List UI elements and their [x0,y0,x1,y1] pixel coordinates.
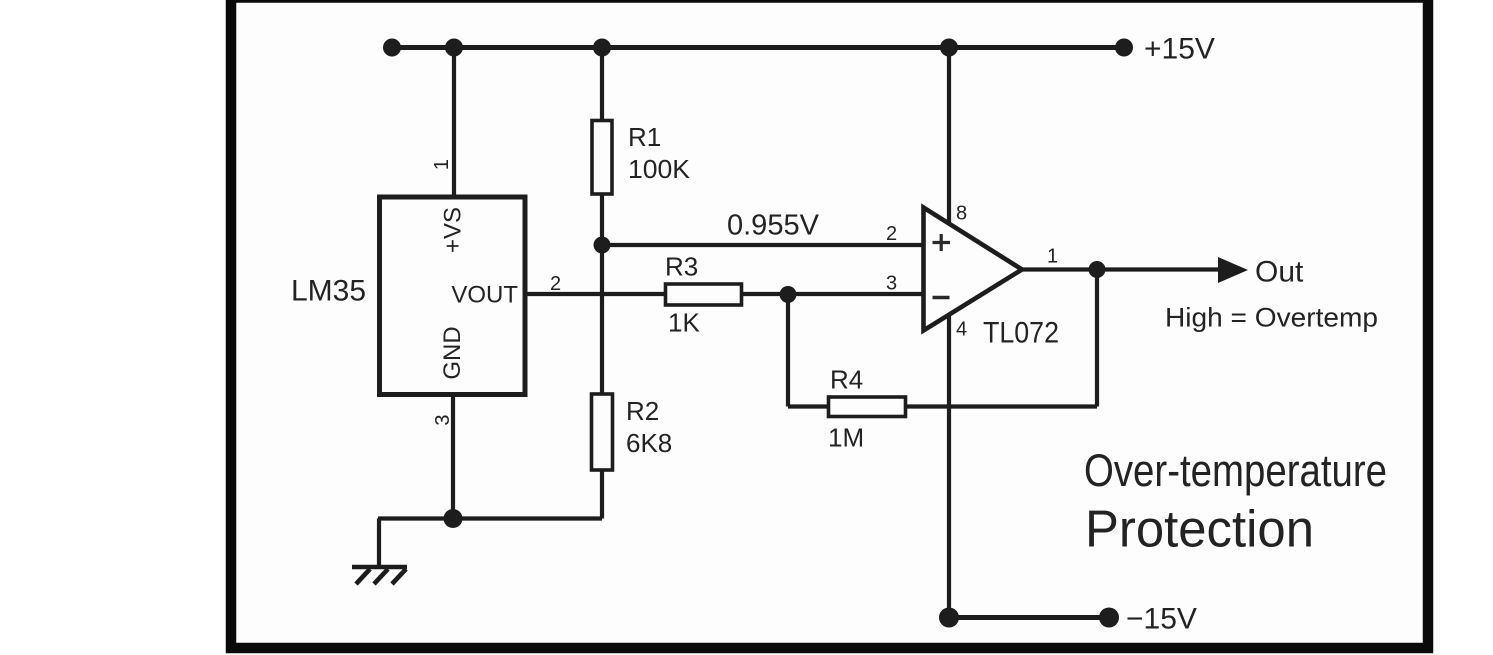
resistor R4 [829,397,906,417]
svg-text:2: 2 [886,223,897,245]
wire 0.955V node to op-amp noninverting input [602,243,925,247]
svg-text:Over-temperature: Over-temperature [1084,445,1387,496]
wire LM35 GND pin3 to ground rail [451,394,455,519]
svg-text:1K: 1K [668,308,700,338]
junction dot rail end [1115,39,1133,57]
wire ground rail [378,516,602,520]
svg-text:Protection: Protection [1085,501,1314,559]
svg-text:LM35: LM35 [291,275,366,308]
svg-text:+VS: +VS [440,207,467,253]
wire inverting node to R4 left [788,404,830,408]
svg-text:+15V: +15V [1144,33,1215,66]
junction dot rail at R1 [593,39,611,57]
svg-text:2: 2 [550,273,561,295]
svg-text:−15V: −15V [1126,603,1197,636]
resistor R2 [592,394,613,470]
svg-text:1: 1 [431,159,453,170]
wire R2 bottom to ground rail [600,468,604,519]
svg-text:R3: R3 [665,252,698,282]
wire ground stub [377,519,381,568]
junction dot -15V left [939,608,959,628]
svg-text:3: 3 [432,414,454,425]
svg-text:6K8: 6K8 [626,428,672,458]
wire op-amp output to Out arrow [1022,267,1220,271]
svg-text:TL072: TL072 [983,317,1059,350]
svg-text:8: 8 [956,203,967,225]
junction dot rail at LM35 [445,39,463,57]
svg-text:0.955V: 0.955V [727,210,820,242]
svg-text:VOUT: VOUT [451,282,518,309]
svg-text:3: 3 [886,273,897,295]
svg-text:1: 1 [1047,246,1058,268]
border frame of schematic [231,0,1428,648]
IC LM35 body [380,197,526,395]
junction dot rail start [383,39,401,57]
node inverting input junction dot [780,286,797,303]
svg-text:R4: R4 [830,365,863,395]
svg-text:R2: R2 [626,396,659,426]
svg-text:100K: 100K [628,154,691,184]
svg-text:GND: GND [439,326,466,379]
svg-text:1M: 1M [828,423,864,453]
junction dot rail at pin8 [940,39,958,57]
wire inverting node down leg [786,295,790,407]
wire rail to R1 top [600,48,604,123]
wire +15V rail to op-amp pin 8 [947,48,951,231]
svg-text:High = Overtemp: High = Overtemp [1165,303,1378,333]
junction dot -15V right [1099,608,1119,628]
Out arrowhead [1218,257,1248,283]
wire R1 bottom to 0.955V node and down to R2 top [600,192,604,396]
wire feedback riser to output [1095,270,1099,407]
op-amp minus sign [933,296,950,300]
op-amp plus sign [933,234,951,251]
resistor R1 [592,121,612,195]
resistor R3 [666,284,742,305]
node output junction dot [1089,261,1106,278]
wire +15V top rail [392,45,1124,50]
wire R4 right to feedback corner [904,404,1097,408]
ground symbol [352,567,407,584]
wire -15V rail [949,615,1109,620]
svg-text:Out: Out [1255,256,1304,289]
node 0.955V junction dot [594,237,611,254]
wire LM35 VOUT pin2 through R3 to inverting input [525,292,925,296]
svg-text:4: 4 [956,319,967,341]
svg-text:R1: R1 [628,122,661,152]
wire rail to LM35 +VS pin 1 [452,48,456,198]
junction dot ground at pin3 [444,509,463,528]
op-amp U1 TL072 triangle [924,208,1023,331]
wire op-amp pin 4 down to -15V rail [947,310,951,618]
